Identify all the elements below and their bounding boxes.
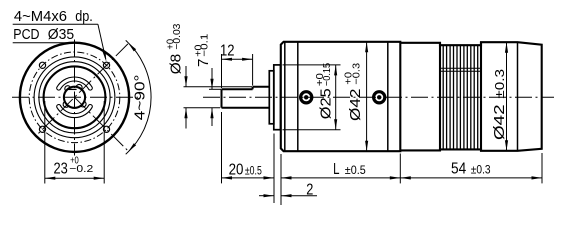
svg-text:12: 12 bbox=[220, 43, 235, 60]
svg-text:2: 2 bbox=[306, 182, 313, 199]
svg-text:4~M4x6: 4~M4x6 bbox=[14, 9, 67, 25]
svg-text:−0.1: −0.1 bbox=[200, 33, 211, 56]
svg-text:Ø25: Ø25 bbox=[318, 88, 334, 119]
svg-text:20: 20 bbox=[229, 161, 244, 178]
svg-text:±0.5: ±0.5 bbox=[245, 165, 262, 177]
svg-text:Ø42: Ø42 bbox=[492, 104, 508, 140]
svg-text:±0.3: ±0.3 bbox=[493, 69, 507, 99]
svg-text:−0.2: −0.2 bbox=[69, 164, 93, 175]
svg-text:±0.3: ±0.3 bbox=[471, 165, 491, 177]
svg-text:−0.3: −0.3 bbox=[352, 63, 363, 85]
svg-text:dp.: dp. bbox=[75, 9, 93, 25]
svg-text:Ø8: Ø8 bbox=[169, 54, 185, 75]
svg-text:23: 23 bbox=[54, 160, 68, 177]
svg-text:L: L bbox=[333, 161, 340, 178]
svg-text:4~90°: 4~90° bbox=[133, 75, 149, 121]
svg-text:PCD: PCD bbox=[13, 27, 39, 43]
svg-text:7: 7 bbox=[196, 59, 212, 67]
svg-text:54: 54 bbox=[451, 161, 466, 178]
svg-text:Ø35: Ø35 bbox=[48, 27, 74, 43]
svg-text:−0.15: −0.15 bbox=[322, 63, 333, 86]
svg-text:Ø42: Ø42 bbox=[348, 88, 364, 121]
svg-text:±0.5: ±0.5 bbox=[345, 165, 366, 177]
svg-text:−0.03: −0.03 bbox=[172, 23, 183, 49]
